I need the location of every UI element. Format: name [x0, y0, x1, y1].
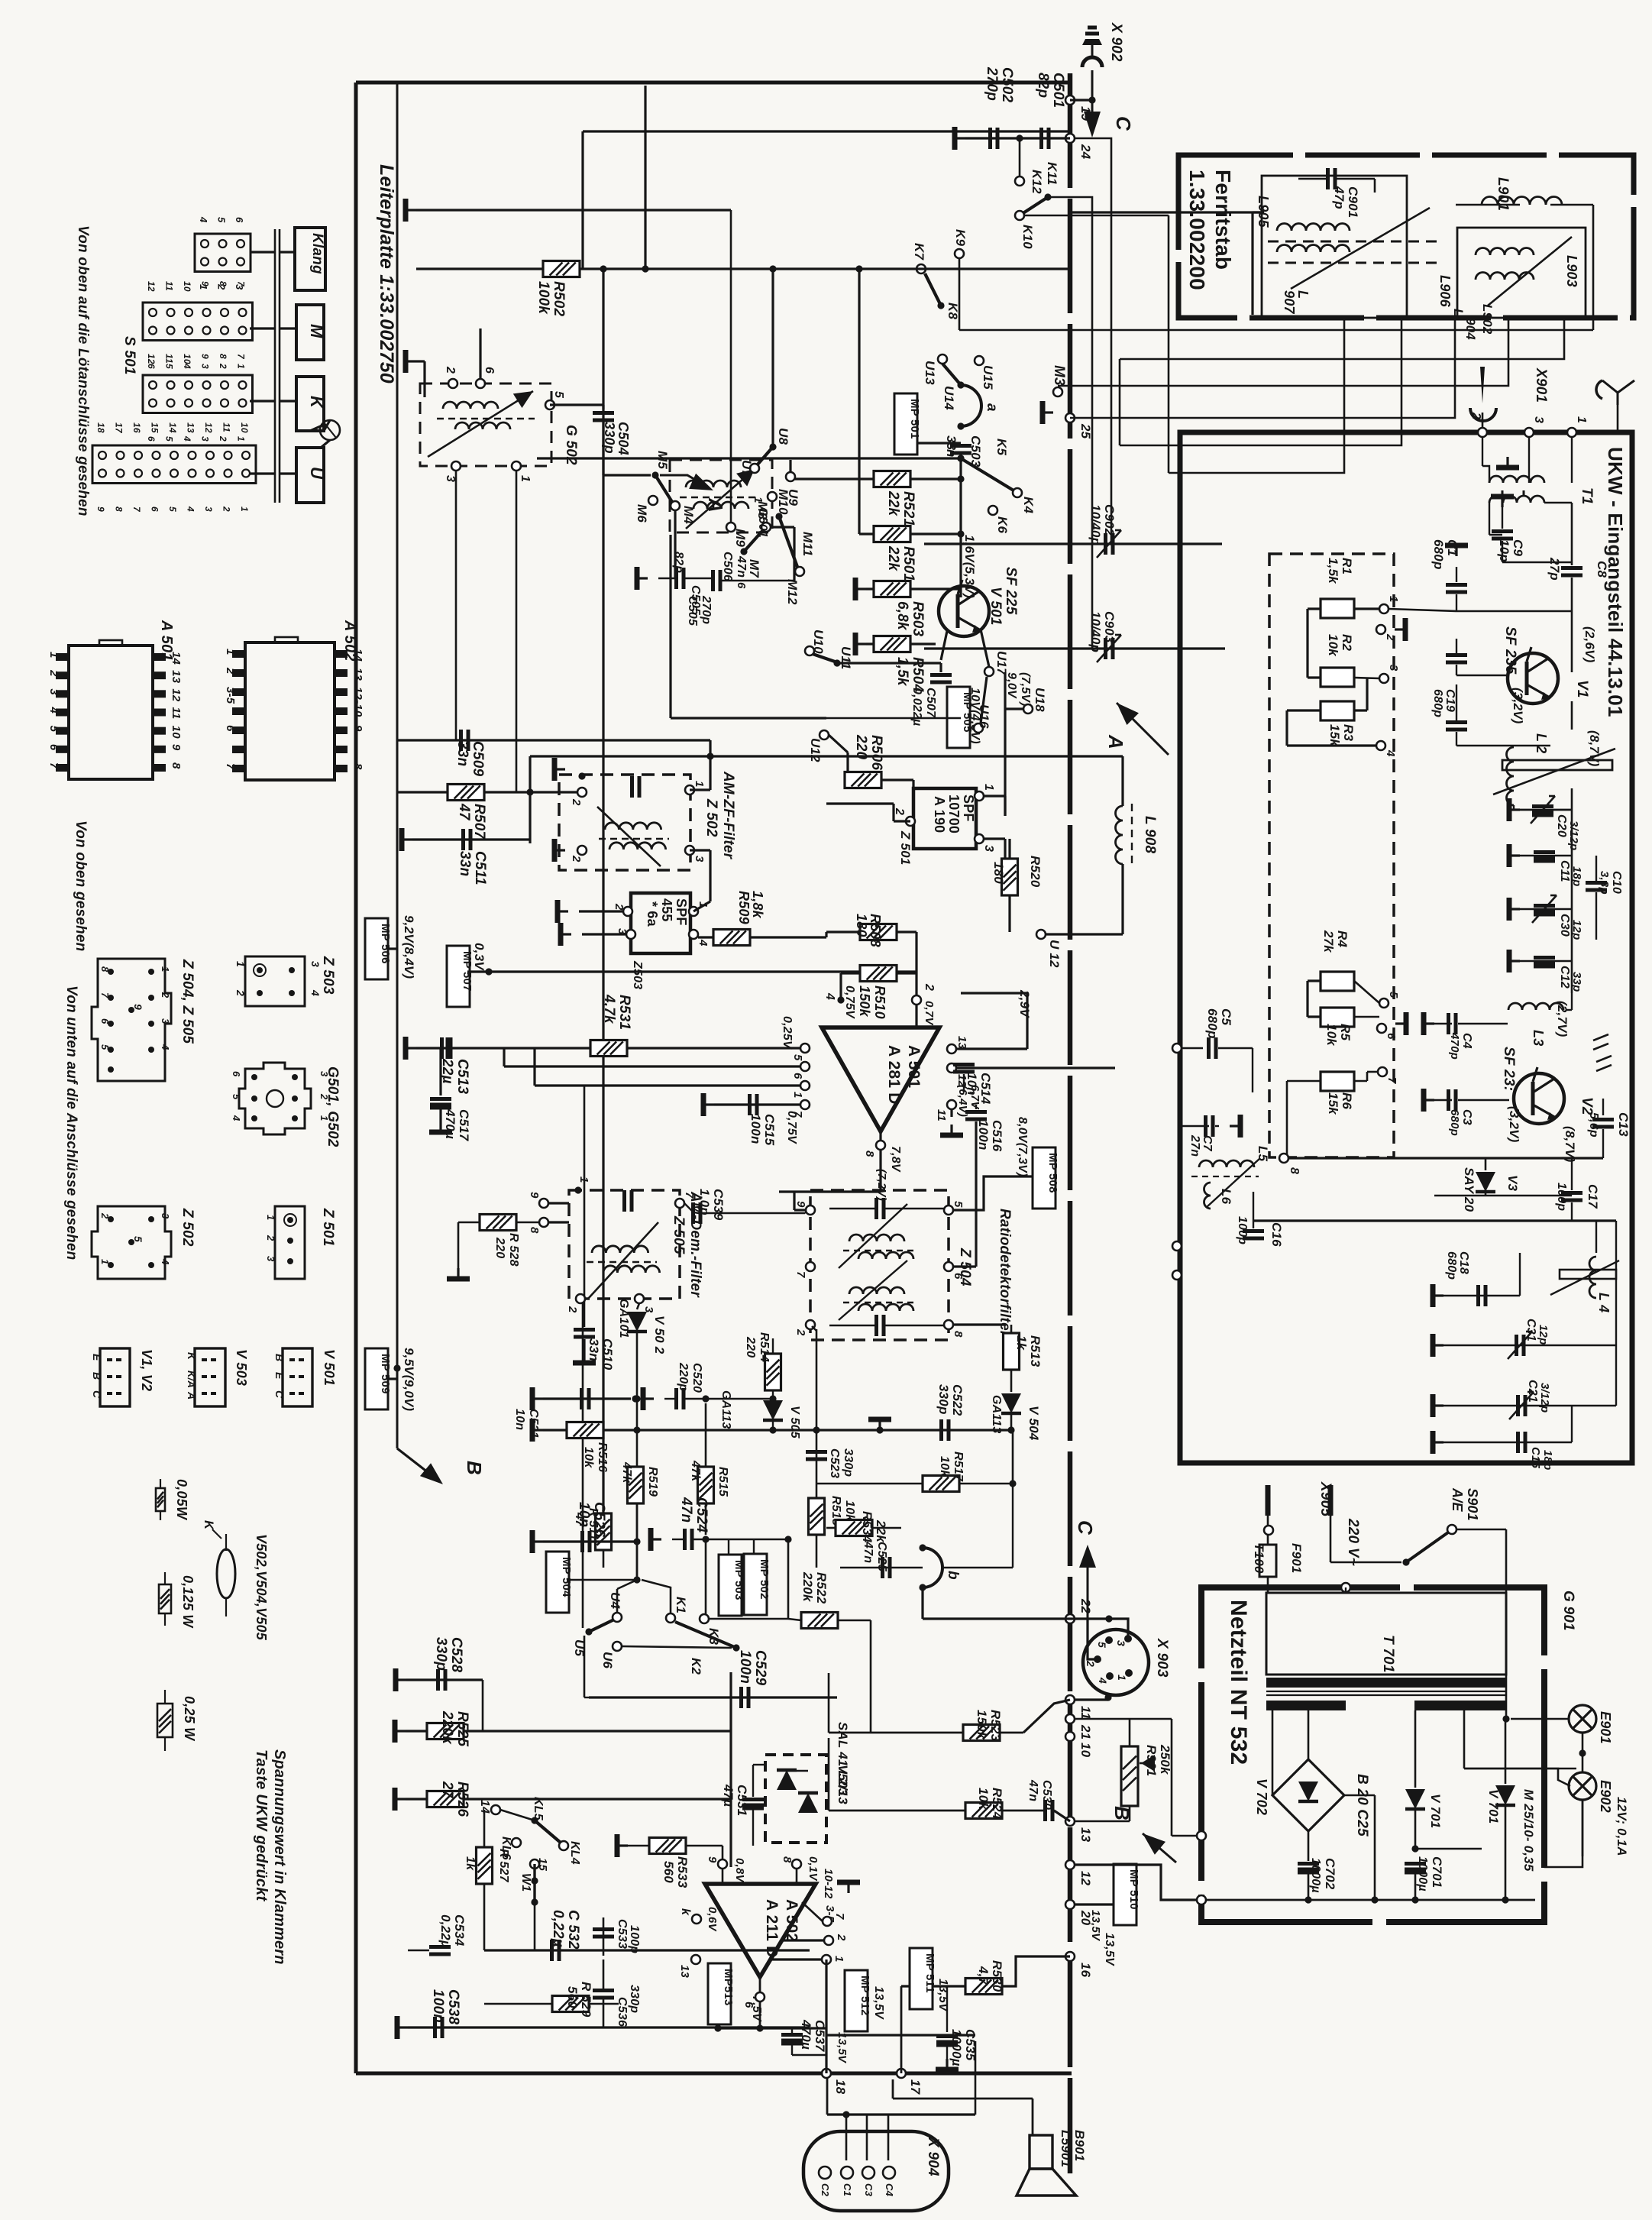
- svg-text:C531: C531: [735, 1785, 749, 1816]
- ceramic filter Z501 SPF 10700 A190: [913, 788, 976, 849]
- wire: [1004, 672, 1006, 816]
- svg-text:L6: L6: [1219, 1189, 1233, 1205]
- resistor R534: [836, 1520, 872, 1536]
- ferrite rod antenna coils L905 L906 L907: [1262, 176, 1407, 318]
- svg-text:8: 8: [218, 281, 228, 286]
- svg-text:82p: 82p: [672, 552, 685, 573]
- svg-text:Ratiodetektorfilter: Ratiodetektorfilter: [997, 1209, 1013, 1338]
- ground: [1424, 1099, 1434, 1101]
- svg-text:L 908: L 908: [1142, 816, 1158, 853]
- wire: [1129, 1806, 1131, 1821]
- wire: [924, 647, 1225, 649]
- board pin 24: [1065, 134, 1075, 143]
- svg-text:Von oben auf die Lötanschlüsse: Von oben auf die Lötanschlüsse gesehen: [75, 225, 91, 516]
- svg-text:4,7k: 4,7k: [601, 994, 617, 1024]
- meter symbol: [320, 420, 340, 440]
- legend resistor 0.05W: [160, 1479, 161, 1488]
- svg-text:13: 13: [170, 670, 183, 684]
- lamp E901: [1502, 1715, 1509, 1722]
- svg-text:8: 8: [351, 763, 364, 770]
- loudspeaker B901 L5901: [1030, 2135, 1052, 2169]
- svg-text:C506: C506: [721, 552, 734, 581]
- svg-text:2: 2: [923, 983, 936, 991]
- svg-text:1: 1: [224, 649, 237, 655]
- switch K11/K12: [1019, 138, 1021, 176]
- ground: [1509, 960, 1520, 962]
- wire: [582, 1303, 584, 1628]
- svg-text:8: 8: [952, 1331, 965, 1338]
- svg-text:560: 560: [661, 1861, 676, 1883]
- wire: [975, 2041, 977, 2115]
- wire: [388, 947, 397, 950]
- svg-text:1: 1: [752, 497, 765, 503]
- capacitor C3: [1434, 1099, 1452, 1101]
- svg-text:K1: K1: [674, 1597, 688, 1613]
- svg-text:C2: C2: [820, 2183, 831, 2197]
- svg-text:16: 16: [1078, 1963, 1093, 1978]
- capacitor C509: [459, 730, 463, 751]
- svg-text:V503: V503: [836, 1765, 850, 1796]
- svg-text:C17: C17: [1586, 1184, 1600, 1209]
- resistor R3: [1321, 701, 1354, 720]
- wire: [1571, 701, 1573, 730]
- capacitor C529: [739, 1687, 743, 1708]
- wire: [825, 1959, 827, 2073]
- svg-text:Spannungswert in Klammern: Spannungswert in Klammern: [271, 1749, 288, 1965]
- wire: [1253, 211, 1264, 213]
- wire: [709, 1618, 788, 1620]
- wire: [1058, 319, 1508, 386]
- resistor R515: [705, 1403, 707, 1535]
- svg-text:U15: U15: [981, 365, 995, 390]
- capacitor C529: [589, 1696, 837, 1698]
- svg-text:47n: 47n: [678, 1497, 694, 1523]
- net C arrow (top): [1091, 100, 1094, 113]
- wire: [584, 1636, 586, 1697]
- svg-text:7: 7: [1385, 1077, 1398, 1084]
- resistor R526: [427, 1791, 464, 1807]
- svg-text:8: 8: [218, 354, 228, 359]
- svg-text:R514: R514: [758, 1332, 771, 1362]
- button box Klang: [295, 228, 325, 290]
- capacitor Z505 internal: [622, 1190, 626, 1212]
- svg-text:C: C: [1074, 1520, 1097, 1536]
- capacitor C506: [711, 570, 715, 591]
- svg-text:R503: R503: [910, 601, 926, 636]
- wire: [961, 992, 1027, 994]
- svg-text:5: 5: [791, 1054, 804, 1061]
- svg-text:0,8V: 0,8V: [733, 1858, 746, 1883]
- svg-text:11: 11: [164, 354, 175, 364]
- svg-text:904: 904: [1463, 318, 1478, 340]
- svg-text:SF 225: SF 225: [1003, 567, 1019, 615]
- svg-text:K: K: [186, 1352, 198, 1361]
- svg-text:K8: K8: [946, 303, 960, 319]
- wire: [1121, 756, 1123, 806]
- coil L901: [1482, 197, 1562, 205]
- svg-text:W1: W1: [519, 1873, 532, 1892]
- svg-text:47k: 47k: [689, 1460, 702, 1482]
- test point MP 506: [365, 918, 388, 979]
- resistor R519: [628, 1467, 644, 1503]
- svg-text:C505: C505: [686, 596, 699, 626]
- svg-text:680p: 680p: [1205, 1008, 1220, 1039]
- wire: [503, 1048, 505, 1066]
- svg-text:C504: C504: [616, 422, 631, 455]
- wire: [280, 251, 295, 253]
- test point MP 502: [744, 1554, 767, 1615]
- svg-text:B: B: [273, 1354, 286, 1361]
- svg-text:V 503: V 503: [234, 1349, 249, 1386]
- svg-text:U4: U4: [608, 1592, 622, 1609]
- svg-text:Z503: Z503: [631, 960, 644, 989]
- svg-text:K3: K3: [706, 1628, 721, 1645]
- contact K6: [988, 506, 997, 515]
- svg-text:C525: C525: [875, 1542, 888, 1572]
- svg-text:1: 1: [832, 1956, 845, 1963]
- wire: [829, 1325, 875, 1326]
- svg-text:2: 2: [221, 506, 232, 512]
- capacitor C8: [1561, 566, 1582, 570]
- wire pin16 R530: [901, 1956, 1070, 1986]
- capacitor C539: [691, 1202, 695, 1224]
- switch M8-M7: [740, 548, 747, 555]
- svg-text:12: 12: [146, 281, 157, 292]
- svg-text:0,22µ: 0,22µ: [550, 1910, 566, 1947]
- wire: [816, 1329, 818, 1430]
- svg-text:33p: 33p: [1570, 972, 1583, 992]
- svg-text:455: 455: [659, 898, 674, 922]
- filter Z504 Z505 bottom view: [92, 959, 171, 1081]
- pad U16: [974, 723, 983, 733]
- wire: [981, 677, 987, 723]
- svg-text:5: 5: [167, 506, 178, 512]
- wire: [1464, 1768, 1576, 1770]
- switch M5-M4: [651, 471, 658, 478]
- ground: [457, 1268, 459, 1279]
- svg-text:907: 907: [1282, 290, 1297, 314]
- svg-text:2: 2: [1384, 633, 1397, 641]
- capacitor C701: [1411, 1845, 1418, 1852]
- ground: [1043, 411, 1053, 413]
- svg-text:GA113: GA113: [719, 1390, 732, 1429]
- svg-text:13: 13: [186, 422, 196, 433]
- svg-text:10: 10: [239, 422, 250, 433]
- svg-text:18p: 18p: [1541, 1450, 1554, 1470]
- coil L2 with core: [1507, 747, 1515, 805]
- potentiometer R901: [1121, 1746, 1138, 1806]
- svg-text:X905: X905: [1317, 1481, 1334, 1516]
- capacitor C511: [461, 829, 465, 850]
- svg-text:C4: C4: [1460, 1033, 1473, 1049]
- svg-text:220: 220: [493, 1237, 506, 1258]
- svg-text:0,75V: 0,75V: [843, 985, 856, 1019]
- ground: [950, 1125, 952, 1135]
- wire: [636, 1482, 638, 1542]
- trimmer C31: [1443, 1345, 1616, 1346]
- svg-text:A 501: A 501: [905, 1045, 923, 1088]
- net B arrow (left): [397, 1448, 438, 1481]
- svg-text:6: 6: [952, 1273, 965, 1280]
- svg-text:C4: C4: [884, 2183, 895, 2197]
- svg-text:0,3V: 0,3V: [472, 943, 487, 971]
- svg-text:AM-ZF-Filter: AM-ZF-Filter: [720, 771, 736, 860]
- svg-text:M7: M7: [747, 559, 761, 578]
- svg-text:MP513: MP513: [722, 1969, 735, 2006]
- trimmer C902: [1104, 533, 1107, 555]
- svg-text:6: 6: [47, 744, 60, 751]
- svg-text:82p: 82p: [1035, 73, 1051, 98]
- svg-text:27k: 27k: [1321, 930, 1336, 953]
- ground: [554, 849, 565, 851]
- svg-text:1: 1: [1387, 596, 1400, 603]
- svg-text:680p: 680p: [1431, 689, 1444, 717]
- svg-text:3: 3: [200, 436, 211, 442]
- svg-text:R530: R530: [990, 1960, 1004, 1992]
- wire: [826, 717, 961, 720]
- wire: [881, 778, 913, 781]
- board pin 17: [897, 2069, 906, 2078]
- pads U7 U8 U9: [769, 443, 776, 450]
- svg-text:220k: 220k: [800, 1571, 815, 1603]
- filter G501 G502 bottom view: [239, 1063, 311, 1134]
- svg-text:C19: C19: [1443, 689, 1456, 712]
- wire: [1615, 1221, 1617, 1406]
- svg-text:X 904: X 904: [925, 2137, 941, 2176]
- svg-text:6: 6: [234, 217, 245, 223]
- svg-text:SPF: SPF: [961, 794, 976, 822]
- wire lamp return: [1582, 1800, 1584, 1856]
- net C arrow (bottom): [1079, 1545, 1096, 1568]
- capacitor C522: [939, 1419, 943, 1441]
- svg-text:13,5V: 13,5V: [1089, 1910, 1102, 1942]
- svg-text:C507: C507: [924, 688, 937, 718]
- svg-text:10700: 10700: [946, 794, 962, 833]
- svg-text:R508: R508: [868, 914, 883, 947]
- svg-text:C534: C534: [452, 1914, 467, 1947]
- svg-text:9: 9: [351, 725, 364, 732]
- svg-text:4: 4: [697, 939, 710, 947]
- svg-text:150k: 150k: [975, 1710, 989, 1740]
- capacitor C517: [439, 1048, 441, 1095]
- dashed resistor box R1 R2 R3: [1269, 554, 1394, 1157]
- svg-text:R1: R1: [1340, 558, 1354, 574]
- svg-text:680p: 680p: [1431, 539, 1446, 570]
- svg-text:10n: 10n: [576, 1502, 592, 1527]
- svg-text:R6: R6: [1340, 1092, 1354, 1109]
- wire: [581, 131, 584, 269]
- wire: [530, 755, 1123, 757]
- svg-text:R 528: R 528: [507, 1233, 520, 1267]
- resistor R525: [427, 1723, 464, 1739]
- svg-text:Z 504, Z 505: Z 504, Z 505: [179, 959, 196, 1044]
- ground: [1506, 457, 1508, 468]
- svg-text:V1: V1: [1574, 680, 1590, 698]
- svg-text:S901: S901: [1465, 1488, 1480, 1521]
- svg-text:11: 11: [935, 1109, 948, 1121]
- diode V3 SAY20: [1434, 1195, 1572, 1197]
- svg-text:G501, G502: G501, G502: [325, 1066, 341, 1147]
- wire: [771, 1958, 822, 1960]
- resistor R527: [477, 1847, 493, 1884]
- svg-text:100p: 100p: [628, 1925, 641, 1953]
- svg-text:A 190: A 190: [932, 796, 947, 833]
- wire: [866, 587, 961, 590]
- svg-text:1: 1: [99, 1259, 111, 1264]
- wire: [1048, 197, 1092, 649]
- ground: [561, 933, 571, 935]
- svg-text:2: 2: [566, 1306, 579, 1313]
- pad M9: [730, 210, 732, 523]
- svg-text:9,5V(9,0V): 9,5V(9,0V): [402, 1348, 416, 1411]
- wires ferrite to board: [1070, 211, 1264, 213]
- svg-text:3: 3: [982, 845, 995, 852]
- svg-text:2: 2: [224, 667, 237, 675]
- ground: [1433, 1441, 1443, 1443]
- wire: [829, 735, 848, 752]
- net A arrow (left): [660, 475, 707, 487]
- svg-text:R510: R510: [872, 985, 887, 1019]
- wire: [826, 2078, 829, 2115]
- wire: [693, 901, 710, 911]
- ground: [1395, 1022, 1406, 1024]
- svg-text:T 701: T 701: [1380, 1635, 1396, 1673]
- ground: [554, 768, 565, 770]
- svg-text:11: 11: [1078, 1706, 1093, 1720]
- svg-text:2: 2: [835, 1934, 848, 1941]
- svg-text:10-12: 10-12: [822, 1869, 835, 1899]
- wire: [728, 1539, 729, 1555]
- svg-text:K/A: K/A: [186, 1371, 197, 1388]
- svg-text:G 901: G 901: [1560, 1591, 1576, 1631]
- pad U12 (IF): [1036, 930, 1046, 939]
- svg-text:330p: 330p: [433, 1637, 449, 1671]
- svg-text:R509: R509: [736, 891, 752, 924]
- svg-text:3: 3: [1387, 665, 1400, 672]
- wire: [729, 1672, 732, 1867]
- svg-text:22k: 22k: [885, 490, 901, 517]
- diode V504 GA113: [1001, 1393, 1021, 1413]
- AM-Dem-Filter Z505: [569, 1190, 680, 1299]
- capacitors C533 C536: [603, 1917, 605, 1956]
- svg-text:7: 7: [833, 1913, 846, 1920]
- svg-text:6: 6: [231, 1071, 242, 1077]
- capacitor C510: [584, 1086, 586, 1327]
- A502 pin 1: [822, 1955, 831, 1964]
- svg-text:18p: 18p: [1570, 866, 1583, 886]
- ground: [396, 1678, 406, 1681]
- svg-text:2: 2: [218, 363, 228, 369]
- svg-text:A: A: [186, 1391, 198, 1400]
- wire: [1344, 1794, 1375, 1797]
- wire pin12 to Netzteil: [1075, 1865, 1197, 1900]
- svg-text:100n: 100n: [430, 1989, 446, 2023]
- capacitor C538: [433, 2017, 437, 2038]
- svg-text:U6: U6: [600, 1652, 615, 1668]
- svg-text:25: 25: [1078, 423, 1093, 439]
- svg-text:9: 9: [95, 506, 106, 512]
- svg-text:2: 2: [570, 855, 583, 862]
- svg-text:Von oben gesehen: Von oben gesehen: [73, 820, 89, 951]
- svg-text:33n: 33n: [587, 1338, 601, 1361]
- svg-text:2: 2: [444, 366, 457, 374]
- svg-text:R522: R522: [814, 1572, 829, 1604]
- svg-text:1: 1: [47, 652, 60, 659]
- ground: [651, 1538, 661, 1540]
- wire: [516, 471, 518, 792]
- transformer G501: [670, 460, 772, 532]
- svg-text:4: 4: [186, 506, 196, 512]
- wire: [859, 532, 961, 535]
- filter Z503 bottom view: [245, 956, 305, 1006]
- ground: [617, 1844, 628, 1846]
- capacitor C7: [1180, 1125, 1209, 1127]
- svg-text:2: 2: [99, 1212, 111, 1219]
- wire: [984, 837, 1005, 840]
- svg-text:0,75V: 0,75V: [785, 1111, 798, 1144]
- button box U: [296, 448, 324, 503]
- svg-text:A: A: [1104, 734, 1127, 749]
- svg-text:18: 18: [833, 2079, 848, 2095]
- svg-text:9: 9: [200, 281, 211, 286]
- capacitor C516: [965, 1110, 987, 1114]
- svg-text:15k: 15k: [1326, 1092, 1340, 1115]
- svg-text:1000µ: 1000µ: [1416, 1856, 1429, 1892]
- wire: [771, 526, 794, 528]
- wire: [1120, 319, 1401, 445]
- svg-text:330p: 330p: [628, 1985, 641, 2013]
- svg-text:B 20 C25: B 20 C25: [1354, 1774, 1370, 1837]
- svg-text:C522: C522: [950, 1384, 965, 1416]
- svg-text:100p: 100p: [1236, 1216, 1249, 1244]
- svg-text:5: 5: [99, 1044, 111, 1050]
- svg-text:2: 2: [218, 435, 228, 442]
- wire: [1389, 609, 1456, 611]
- svg-text:10: 10: [182, 354, 192, 364]
- svg-text:C511: C511: [472, 851, 488, 885]
- wire: [839, 973, 842, 1000]
- wire: [324, 420, 330, 431]
- svg-text:MP 512: MP 512: [858, 1976, 871, 2016]
- capacitor C702: [1308, 1831, 1310, 1861]
- wire: [771, 269, 774, 447]
- board pin 19: [1065, 95, 1075, 105]
- svg-text:C903: C903: [1102, 611, 1117, 643]
- svg-text:MP 508: MP 508: [1046, 1153, 1059, 1193]
- svg-text:V 50 2: V 50 2: [652, 1315, 667, 1354]
- transformer secondary windings: [1266, 1701, 1346, 1710]
- svg-text:Z 502: Z 502: [179, 1208, 196, 1247]
- svg-text:MP 501: MP 501: [908, 399, 921, 439]
- svg-text:L 2: L 2: [1534, 733, 1549, 753]
- svg-text:C530: C530: [1040, 1780, 1053, 1810]
- svg-text:5: 5: [132, 1236, 144, 1242]
- svg-text:100p: 100p: [1555, 1183, 1568, 1211]
- svg-text:k: k: [679, 1908, 692, 1916]
- svg-text:C30: C30: [1558, 914, 1571, 937]
- legend resistor 0.25W: [164, 1690, 166, 1704]
- svg-text:2: 2: [234, 989, 247, 996]
- wire: [1253, 1219, 1616, 1222]
- pad U18: [1023, 704, 1033, 714]
- svg-text:7: 7: [131, 506, 142, 513]
- test point MP 501: [894, 393, 917, 455]
- svg-text:17: 17: [114, 422, 124, 434]
- svg-text:C3: C3: [863, 2183, 874, 2197]
- svg-text:330p: 330p: [936, 1384, 951, 1415]
- svg-text:270p: 270p: [984, 66, 1000, 101]
- wire: [1456, 1529, 1506, 1531]
